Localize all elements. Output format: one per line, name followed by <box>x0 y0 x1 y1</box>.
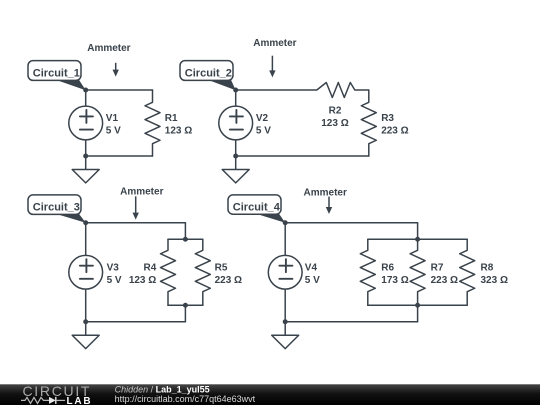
callout Circuit_2 <box>180 61 236 91</box>
svg-text:R2: R2 <box>329 105 342 116</box>
svg-text:Circuit_4: Circuit_4 <box>233 201 281 213</box>
wire bottom circuit 1 <box>86 155 153 157</box>
callout Circuit_3 <box>28 195 86 223</box>
svg-text:Circuit_3: Circuit_3 <box>33 202 80 214</box>
svg-text:R6: R6 <box>381 263 394 274</box>
voltage source V1 <box>69 90 103 156</box>
wire rail top circuit 3 <box>168 238 203 240</box>
svg-text:R8: R8 <box>481 263 494 274</box>
svg-text:V1: V1 <box>106 113 119 124</box>
svg-text:5 V: 5 V <box>107 275 122 286</box>
ground circuit 2 <box>222 156 249 183</box>
svg-text:223 Ω: 223 Ω <box>215 275 242 286</box>
svg-text:R5: R5 <box>215 263 228 274</box>
node circuit 4 rail top <box>415 237 420 242</box>
svg-text:V2: V2 <box>256 113 269 124</box>
callout Circuit_1 <box>28 61 86 91</box>
svg-text:Ammeter: Ammeter <box>87 43 130 54</box>
node circuit 4 top <box>283 220 288 225</box>
svg-text:5 V: 5 V <box>305 275 320 286</box>
resistor R8 <box>460 239 475 305</box>
svg-text:LAB: LAB <box>67 396 93 405</box>
resistor R5 <box>195 239 210 305</box>
svg-text:Circuit_1: Circuit_1 <box>33 67 80 79</box>
svg-text:R1: R1 <box>165 113 178 124</box>
node circuit 3 top <box>83 220 88 225</box>
voltage source V4 <box>268 223 302 322</box>
svg-text:R7: R7 <box>431 263 444 274</box>
svg-text:http://circuitlab.com/c77qt64e: http://circuitlab.com/c77qt64e63wvt <box>115 394 256 404</box>
wire top circuit 3 <box>86 222 186 224</box>
resistor R1 <box>145 90 160 156</box>
node circuit 1 bottom <box>83 154 88 159</box>
wire stem bottom circuit 3 <box>184 305 186 322</box>
ground circuit 3 <box>72 322 99 349</box>
wire stem bottom circuit 4 <box>417 305 419 322</box>
svg-text:223 Ω: 223 Ω <box>381 125 408 136</box>
resistor R7 <box>410 239 425 305</box>
svg-text:Ammeter: Ammeter <box>253 38 296 49</box>
wire rail bottom circuit 4 <box>368 304 467 306</box>
ground circuit 1 <box>72 156 99 183</box>
annotation Ammeter 2 <box>253 38 296 77</box>
svg-text:Ammeter: Ammeter <box>120 186 163 197</box>
svg-text:173 Ω: 173 Ω <box>381 275 408 286</box>
voltage source V3 <box>69 223 103 322</box>
wire stem top circuit 4 <box>417 223 419 240</box>
logo schematic wire left <box>21 397 49 403</box>
svg-text:223 Ω: 223 Ω <box>431 275 458 286</box>
node circuit 3 rail bottom <box>183 303 188 308</box>
node circuit 3 bottom <box>83 319 88 324</box>
node circuit 4 rail bottom <box>415 303 420 308</box>
svg-text:5 V: 5 V <box>256 125 271 136</box>
callout Circuit_4 <box>228 195 285 223</box>
voltage source V2 <box>219 90 253 156</box>
svg-text:123 Ω: 123 Ω <box>129 275 156 286</box>
svg-text:123 Ω: 123 Ω <box>165 125 192 136</box>
svg-text:Circuit_2: Circuit_2 <box>185 67 232 79</box>
svg-text:323 Ω: 323 Ω <box>481 275 508 286</box>
wire top circuit 1 <box>86 89 153 91</box>
footer bar <box>0 384 540 405</box>
wire rail bottom circuit 3 <box>168 304 203 306</box>
svg-text:V3: V3 <box>107 263 120 274</box>
svg-text:R3: R3 <box>381 113 394 124</box>
svg-text:V4: V4 <box>305 263 318 274</box>
wire top circuit 4 <box>285 222 417 224</box>
node circuit 2 bottom <box>233 154 238 159</box>
node circuit 2 top <box>233 88 238 93</box>
ground circuit 4 <box>272 322 299 349</box>
svg-text:Ammeter: Ammeter <box>304 187 347 198</box>
svg-text:123 Ω: 123 Ω <box>321 118 348 129</box>
node circuit 1 top <box>83 88 88 93</box>
node circuit 3 rail top <box>183 237 188 242</box>
svg-text:5 V: 5 V <box>106 125 121 136</box>
wire rail top circuit 4 <box>368 238 467 240</box>
node circuit 4 bottom <box>283 319 288 324</box>
logo diode <box>49 397 65 404</box>
resistor R4 <box>161 239 176 305</box>
resistor R3 <box>361 90 376 156</box>
annotation Ammeter 1 <box>87 43 130 77</box>
wire bottom circuit 4 <box>285 321 417 323</box>
wire top circuit 2 with resistor R2 <box>236 83 369 98</box>
wire stem top circuit 3 <box>184 223 186 240</box>
wire bottom circuit 2 <box>236 155 369 157</box>
svg-text:R4: R4 <box>144 263 157 274</box>
wire bottom circuit 3 <box>86 321 186 323</box>
annotation Ammeter 4 <box>304 187 347 214</box>
resistor R6 <box>360 239 375 305</box>
annotation Ammeter 3 <box>120 186 163 219</box>
